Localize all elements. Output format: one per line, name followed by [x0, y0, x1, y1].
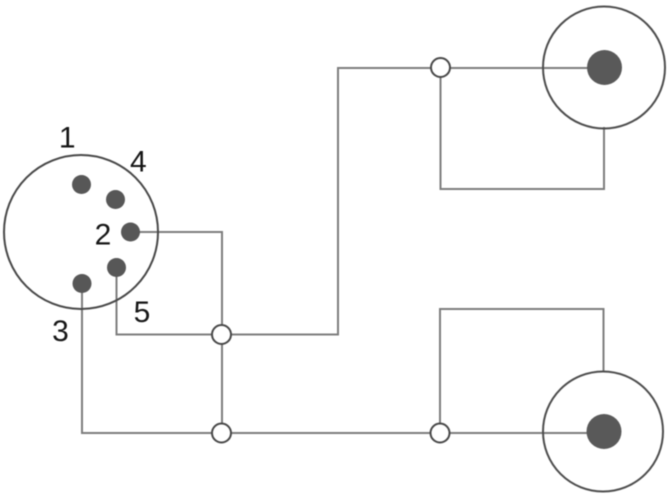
wire pin5 to junction J1	[117, 268, 222, 335]
connector RCA bottom center pin	[587, 414, 622, 449]
svg-text:1: 1	[59, 122, 76, 155]
pin 4	[106, 190, 125, 209]
pin 5	[107, 258, 126, 277]
svg-text:3: 3	[52, 315, 69, 348]
svg-text:5: 5	[134, 296, 151, 329]
connector RCA top outline	[543, 7, 665, 129]
connector RCA bottom outline	[543, 372, 663, 492]
connector RCA top center pin	[587, 50, 622, 85]
wire pin2 to junction J1 and down to junction JA	[130, 232, 222, 433]
junction J1	[212, 325, 231, 344]
pin 1	[72, 175, 91, 194]
connector DIN-5 outline	[4, 155, 158, 309]
junction JT	[431, 58, 450, 77]
wire junction JB to bottom RCA shield	[440, 309, 604, 433]
junction JB	[431, 424, 450, 443]
svg-text:2: 2	[95, 219, 112, 252]
junction JA	[212, 424, 231, 443]
wire junction JT to top RCA shield	[441, 68, 605, 189]
wire pin3 to bottom RCA center pin through junctions JA and JB	[82, 284, 604, 434]
wire junction J1 to top RCA center pin	[222, 68, 605, 335]
pin 3	[73, 274, 92, 293]
pin 2	[121, 223, 140, 242]
svg-text:4: 4	[130, 145, 147, 178]
